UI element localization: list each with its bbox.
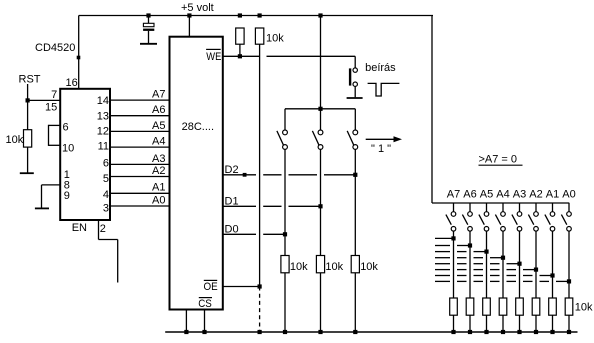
capacitor C1 [143, 16, 154, 44]
switch SA2 [528, 203, 538, 298]
wire address A6 U1 pin 13 to U2 [110, 115, 170, 117]
wire RA3 to bus [519, 315, 521, 332]
wire pin 2 stub [99, 220, 118, 283]
switch SA3 [512, 203, 522, 298]
junction WE-R2 [238, 54, 242, 58]
resistor bank RA0 10k [565, 298, 573, 315]
wire pins 6-10 strap [49, 125, 61, 146]
wire switch feed horizontal [285, 108, 355, 110]
resistor R1 10k (RST pulldown) [24, 130, 32, 147]
svg-text:16: 16 [66, 77, 78, 89]
svg-text:6: 6 [63, 121, 69, 133]
svg-text:A5: A5 [152, 120, 165, 132]
pin CS label (overlined) [198, 298, 212, 311]
junction feed-T [318, 107, 322, 111]
resistor R5 10k (data pulldown) [316, 256, 324, 273]
svg-text:CD4520: CD4520 [35, 42, 75, 54]
wire address A3 U1 pin 6 to U2 [110, 163, 170, 165]
resistor R2 10k (WE pullup) [236, 28, 244, 44]
junction RA0-bus [567, 330, 571, 334]
resistor bank RA6 10k [466, 298, 474, 315]
wire +5V rail [79, 15, 433, 17]
wire ribbon line A1 [435, 275, 553, 277]
junction ribbon-A2 [534, 268, 538, 272]
svg-text:A7: A7 [152, 89, 165, 101]
svg-text:12: 12 [97, 125, 109, 137]
junction R4-bus [283, 330, 287, 334]
junction stub2-bus [202, 330, 206, 334]
svg-text:3: 3 [103, 203, 109, 215]
wire address A1 U1 pin 4 to U2 [110, 192, 170, 194]
resistor bank RA1 10k [549, 298, 557, 315]
switch SA5 [479, 203, 489, 298]
svg-text:15: 15 [45, 101, 57, 113]
svg-text:A2: A2 [529, 188, 542, 200]
wire dashed OE to bus [259, 287, 261, 333]
wire RA6 to bus [469, 315, 471, 332]
junction ribbon-A6 [468, 243, 472, 247]
wire RST to pin 7 [28, 99, 61, 101]
resistor R3 10k (OE pullup) [255, 28, 263, 44]
svg-text:OE: OE [204, 281, 218, 293]
wire ribbon line A3 [435, 263, 520, 265]
ground (pushbutton) [347, 97, 363, 99]
svg-text:A6: A6 [152, 104, 165, 116]
resistor bank RA4 10k [499, 298, 507, 315]
svg-text:A3: A3 [513, 188, 526, 200]
svg-text:A1: A1 [152, 182, 165, 194]
waveform pulse symbol [368, 83, 400, 96]
junction cap C1 to rail [146, 13, 150, 17]
wire R1 to ground [27, 147, 29, 173]
junction RA2-bus [534, 330, 538, 334]
svg-text:14: 14 [97, 95, 109, 107]
switch SA6 [462, 203, 472, 298]
svg-text:+5 volt: +5 volt [181, 2, 214, 14]
wire RA7 to bus [453, 315, 455, 332]
wire ribbon line A7 [435, 237, 454, 239]
junction mark on D2 [243, 173, 247, 177]
wire RA0 to bus [568, 315, 570, 332]
svg-text:A2: A2 [152, 165, 165, 177]
counter U1 CD4520 body [60, 89, 110, 220]
svg-text:10k: 10k [360, 261, 378, 273]
junction RA7-bus [451, 330, 455, 334]
junction RA4-bus [501, 330, 505, 334]
svg-text:2: 2 [100, 223, 106, 235]
ground for C1 [140, 43, 157, 45]
svg-text:A1: A1 [546, 188, 559, 200]
resistor bank RA5 10k [483, 298, 491, 315]
svg-text:10k: 10k [575, 302, 593, 314]
pin OE label (overlined) [204, 280, 218, 293]
wire R5 to bus [320, 273, 322, 332]
svg-text:A0: A0 [562, 188, 575, 200]
svg-text:A3: A3 [152, 153, 165, 165]
wire U2 gnd stub 1 [185, 310, 187, 333]
wire U2 Vcc stub [188, 16, 190, 37]
junction ribbon-A0 [567, 279, 571, 283]
svg-text:A5: A5 [480, 188, 493, 200]
wire address A5 U1 pin 12 to U2 [110, 130, 170, 132]
resistor bank RA3 10k [516, 298, 524, 315]
junction stub1-bus [184, 330, 188, 334]
svg-text:10k: 10k [290, 261, 308, 273]
wire +5 to switch feed [320, 16, 322, 109]
wire RA2 to bus [535, 315, 537, 332]
svg-text:10k: 10k [6, 134, 24, 146]
switch SA4 [495, 203, 505, 298]
wire RST vertical [27, 84, 29, 130]
wire ribbon line A4 [435, 257, 503, 259]
svg-text:5: 5 [103, 173, 109, 185]
wire ribbon line A5 [435, 251, 487, 253]
svg-text:10: 10 [62, 142, 74, 154]
wire R4 to bus [284, 273, 286, 332]
wire switch-bank feed bus [432, 202, 569, 204]
junction RA1-bus [550, 330, 554, 334]
wire ribbon line A6 [435, 245, 470, 247]
junction R6-bus [353, 330, 357, 334]
junction RA6-bus [468, 330, 472, 334]
svg-text:7: 7 [51, 89, 57, 101]
junction R2 to rail [238, 13, 242, 17]
junction R3-OE [258, 284, 262, 288]
junction RA5-bus [484, 330, 488, 334]
junction D0-switch S1 [283, 232, 287, 236]
junction RST node [26, 98, 30, 102]
junction U2 Vcc to rail [187, 13, 191, 17]
wire R6 to bus [354, 273, 356, 332]
wire address A0 U1 pin 3 to U2 [110, 205, 170, 207]
svg-text:4: 4 [103, 189, 109, 201]
eeprom U2 28C body [170, 37, 223, 310]
svg-text:10k: 10k [266, 33, 284, 45]
resistor R4 10k (data pulldown) [281, 256, 289, 273]
junction D1-switch S2 [318, 204, 322, 208]
junction ribbon-A7 [451, 236, 455, 240]
pushbutton S0 beiras [349, 68, 358, 97]
wire address A2 U1 pin 5 to U2 [110, 176, 170, 178]
junction dashed-bus [258, 330, 262, 334]
ground (pins 1-8-9) [35, 207, 49, 209]
junction ribbon-A3 [517, 262, 521, 266]
junction R3 to rail [258, 13, 262, 17]
wire R2 bottom [239, 44, 241, 56]
wire ground bus [165, 331, 577, 333]
wire R3 long vertical [259, 44, 261, 286]
wire D1 line [223, 205, 321, 207]
ground (RST) [20, 172, 34, 174]
svg-text:EN: EN [72, 222, 87, 234]
svg-text:A7: A7 [447, 188, 460, 200]
svg-text:A4: A4 [496, 188, 509, 200]
svg-text:beírás: beírás [365, 62, 396, 74]
wire WE to pushbutton [354, 56, 356, 67]
svg-text:10k: 10k [325, 261, 343, 273]
switch SA0 [561, 203, 571, 298]
wire address A7 U1 pin 14 to U2 [110, 99, 170, 101]
svg-text:" 1 ": " 1 " [371, 143, 391, 155]
wire U2 gnd stub 2 [204, 310, 206, 333]
svg-text:D0: D0 [225, 223, 239, 235]
svg-text:A6: A6 [463, 188, 476, 200]
junction R5-bus [318, 330, 322, 334]
wire pin16 to +5V [78, 16, 80, 89]
switch S3 [347, 109, 357, 175]
wire pins 1-8-9 to ground [42, 185, 61, 208]
svg-text:28C....: 28C.... [182, 121, 214, 133]
junction D2-switch S3 [353, 173, 357, 177]
junction RA3-bus [517, 330, 521, 334]
pin WE label (overlined) [206, 49, 221, 63]
wire address A4 U1 pin 11 to U2 [110, 146, 170, 148]
svg-text:11: 11 [98, 141, 109, 153]
svg-text:6: 6 [103, 157, 109, 169]
svg-text:CS: CS [198, 298, 212, 310]
wire OE line [223, 286, 260, 288]
svg-text:WE: WE [206, 51, 221, 63]
svg-text:A0: A0 [152, 194, 165, 206]
wire RA4 to bus [502, 315, 504, 332]
junction ribbon-A1 [550, 273, 554, 277]
svg-text:9: 9 [64, 190, 70, 202]
junction on pin16 wire [77, 56, 81, 60]
wire D2 line [223, 174, 355, 176]
junction write-line to rail [318, 13, 322, 17]
wire WE line [223, 55, 355, 57]
switch S1 [277, 109, 288, 235]
wire S2 to resistor [320, 206, 322, 255]
wire S1 to resistor [284, 234, 286, 255]
svg-text:RST: RST [19, 74, 41, 86]
svg-text:13: 13 [97, 110, 109, 122]
wire ribbon line A0 [435, 280, 569, 282]
switch SA7 [446, 203, 456, 298]
switch SA1 [545, 203, 555, 298]
resistor R6 10k (data pulldown) [351, 256, 359, 273]
svg-text:>A7 = 0: >A7 = 0 [479, 153, 518, 165]
svg-text:A4: A4 [152, 136, 165, 148]
wire D0 line [223, 233, 285, 235]
wire +5 rail down right side [431, 16, 433, 204]
junction ribbon-A5 [484, 250, 488, 254]
wire S3 to resistor [354, 175, 356, 256]
wire RA5 to bus [486, 315, 488, 332]
wire RA1 to bus [552, 315, 554, 332]
node logic-1 arrow [366, 136, 402, 142]
resistor bank RA7 10k [450, 298, 458, 315]
switch S2 [312, 109, 323, 207]
resistor bank RA2 10k [532, 298, 540, 315]
junction ribbon-A4 [501, 256, 505, 260]
label >A7 = 0 (underlined) [479, 153, 523, 165]
wire ribbon line A2 [435, 269, 536, 271]
